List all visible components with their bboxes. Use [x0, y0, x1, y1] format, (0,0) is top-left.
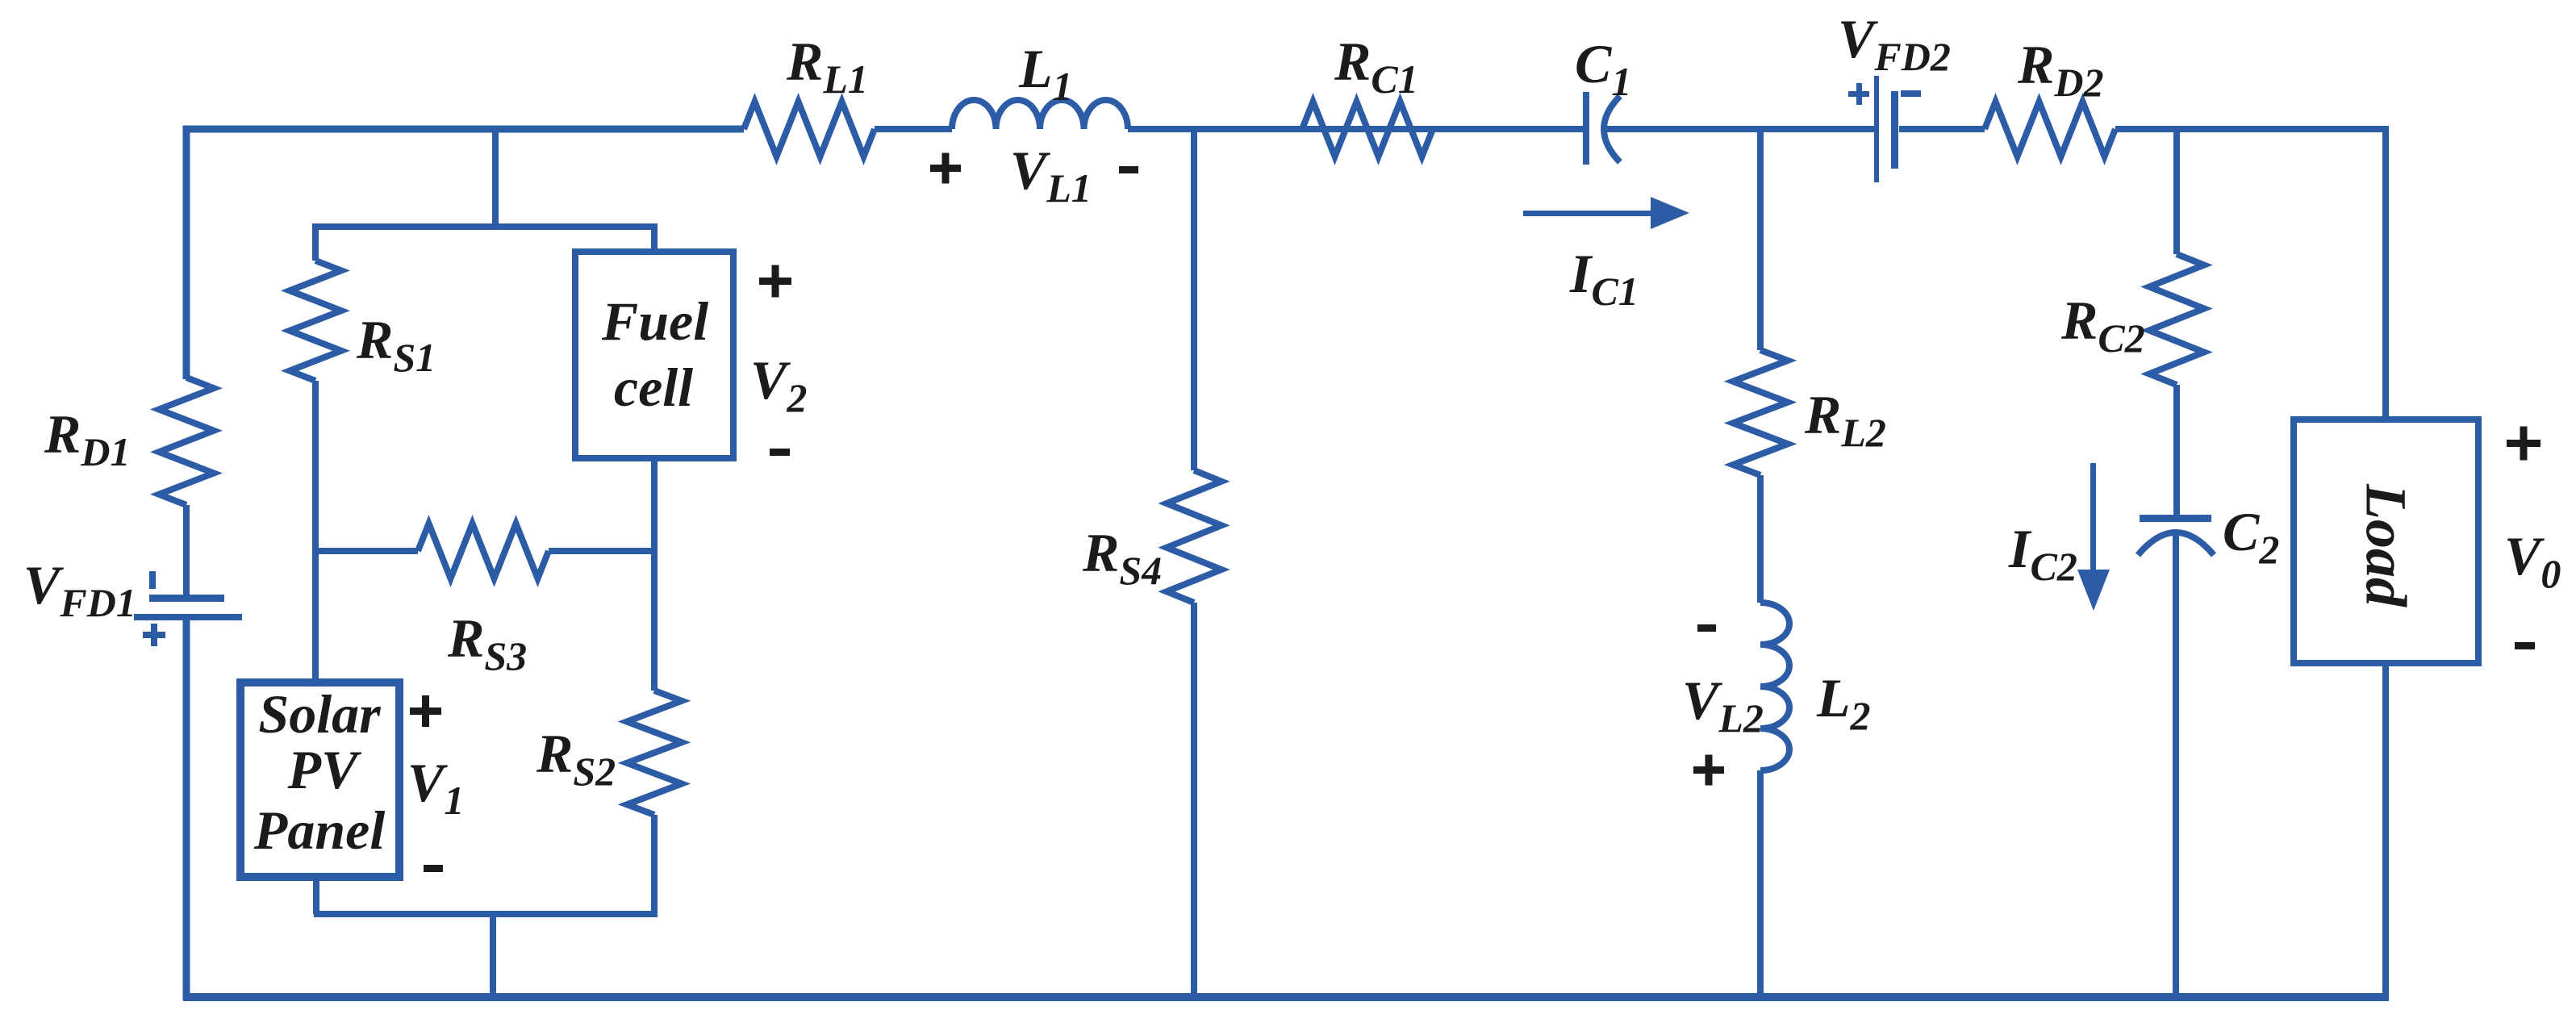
svg-text:Solar: Solar — [258, 683, 381, 745]
svg-text:PV: PV — [287, 739, 362, 800]
svg-text:Panel: Panel — [253, 799, 386, 861]
svg-text:Load: Load — [2353, 483, 2418, 607]
svg-text:cell: cell — [614, 357, 693, 418]
svg-text:Fuel: Fuel — [601, 290, 708, 352]
